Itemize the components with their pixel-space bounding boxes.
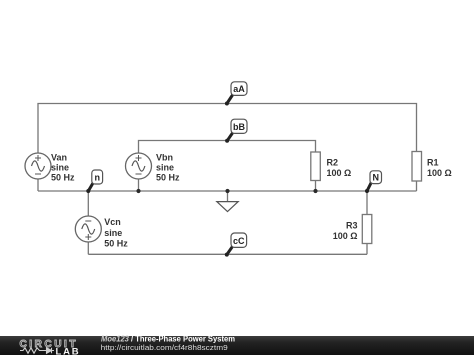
- svg-text:sine: sine: [51, 162, 69, 172]
- svg-text:50 Hz: 50 Hz: [51, 173, 75, 183]
- svg-text:n: n: [94, 173, 100, 183]
- svg-text:aA: aA: [233, 84, 245, 94]
- svg-text:LAB: LAB: [56, 346, 81, 355]
- svg-text:100 Ω: 100 Ω: [333, 231, 358, 241]
- svg-text:bB: bB: [233, 122, 245, 132]
- svg-text:R2: R2: [327, 158, 339, 168]
- svg-text:N: N: [372, 172, 379, 182]
- svg-text:Van: Van: [51, 152, 67, 162]
- svg-text:sine: sine: [104, 228, 122, 238]
- svg-text:Vcn: Vcn: [104, 217, 121, 227]
- svg-text:100 Ω: 100 Ω: [327, 168, 352, 178]
- svg-text:50 Hz: 50 Hz: [156, 173, 180, 183]
- svg-text:http://circuitlab.com/cf4r8h8s: http://circuitlab.com/cf4r8h8scztm9: [101, 343, 228, 352]
- svg-text:sine: sine: [156, 162, 174, 172]
- svg-text:Vbn: Vbn: [156, 152, 173, 162]
- svg-text:cC: cC: [233, 236, 245, 246]
- svg-text:R3: R3: [346, 221, 358, 231]
- svg-text:R1: R1: [427, 158, 439, 168]
- svg-text:100 Ω: 100 Ω: [427, 168, 452, 178]
- svg-text:50 Hz: 50 Hz: [104, 238, 128, 248]
- svg-text:Moe123 / Three-Phase Power Sys: Moe123 / Three-Phase Power System: [101, 334, 235, 343]
